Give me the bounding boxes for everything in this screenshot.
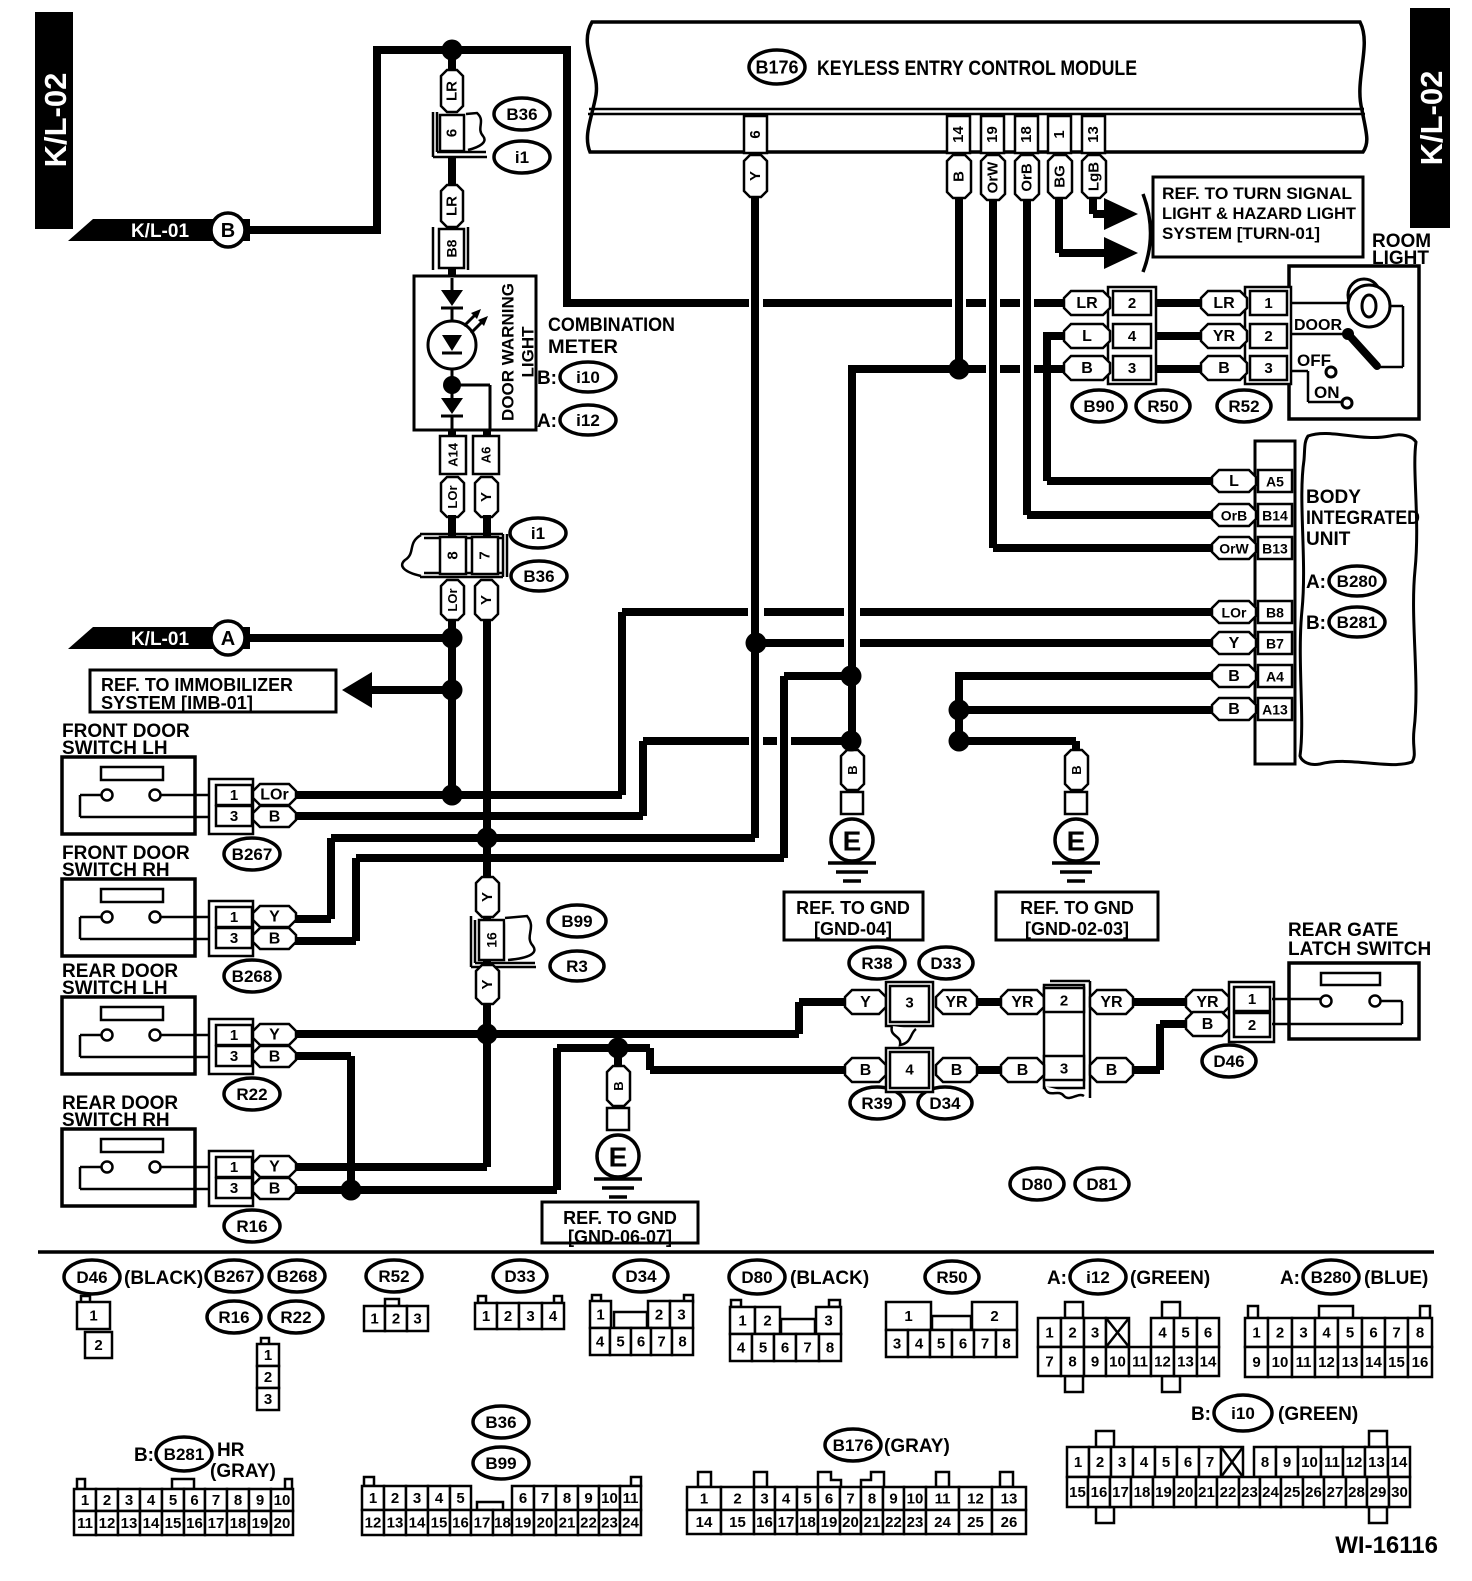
svg-text:8: 8 xyxy=(868,1491,876,1508)
svg-text:R50: R50 xyxy=(1147,397,1178,416)
svg-text:6: 6 xyxy=(637,1334,645,1351)
svg-text:3: 3 xyxy=(824,1313,832,1330)
svg-text:OFF: OFF xyxy=(1297,351,1331,370)
svg-text:21: 21 xyxy=(864,1514,881,1531)
svg-text:10: 10 xyxy=(907,1491,924,1508)
svg-text:B267: B267 xyxy=(232,845,273,864)
svg-text:DOOR WARNING: DOOR WARNING xyxy=(499,283,518,421)
svg-text:B90: B90 xyxy=(1083,397,1114,416)
svg-text:YR: YR xyxy=(1100,994,1123,1011)
svg-text:A14: A14 xyxy=(446,442,461,467)
svg-text:12: 12 xyxy=(365,1515,382,1532)
svg-text:LOr: LOr xyxy=(445,588,460,611)
svg-text:2: 2 xyxy=(763,1313,771,1330)
svg-text:3: 3 xyxy=(125,1492,133,1509)
svg-text:19: 19 xyxy=(515,1515,532,1532)
svg-text:REF. TO IMMOBILIZER: REF. TO IMMOBILIZER xyxy=(101,675,293,695)
svg-text:B36: B36 xyxy=(523,567,554,586)
svg-text:A:: A: xyxy=(1280,1268,1300,1289)
svg-text:17: 17 xyxy=(208,1515,225,1532)
svg-text:A4: A4 xyxy=(1266,669,1284,685)
svg-text:1: 1 xyxy=(230,787,238,804)
svg-text:i10: i10 xyxy=(1231,1404,1255,1423)
svg-text:2: 2 xyxy=(103,1492,111,1509)
svg-text:9: 9 xyxy=(889,1491,897,1508)
svg-text:1: 1 xyxy=(1051,130,1068,138)
svg-text:5: 5 xyxy=(616,1334,624,1351)
svg-text:5: 5 xyxy=(937,1336,945,1353)
svg-text:[GND-02-03]: [GND-02-03] xyxy=(1025,919,1129,939)
svg-text:KEYLESS ENTRY CONTROL MODULE: KEYLESS ENTRY CONTROL MODULE xyxy=(817,57,1137,80)
svg-text:1: 1 xyxy=(738,1313,746,1330)
svg-text:22: 22 xyxy=(885,1514,902,1531)
svg-text:29: 29 xyxy=(1370,1484,1387,1501)
svg-text:R52: R52 xyxy=(1228,397,1259,416)
svg-text:3: 3 xyxy=(893,1336,901,1353)
svg-text:OrW: OrW xyxy=(1219,541,1249,557)
svg-text:E: E xyxy=(1067,826,1086,857)
svg-text:2: 2 xyxy=(990,1308,998,1325)
svg-text:6: 6 xyxy=(959,1336,967,1353)
svg-text:24: 24 xyxy=(622,1515,639,1532)
svg-text:16: 16 xyxy=(452,1515,469,1532)
svg-text:19: 19 xyxy=(821,1514,838,1531)
svg-text:23: 23 xyxy=(907,1514,924,1531)
svg-text:6: 6 xyxy=(1204,1325,1212,1342)
svg-text:3: 3 xyxy=(1060,1061,1068,1078)
svg-text:YR: YR xyxy=(1196,994,1219,1011)
svg-text:INTEGRATED: INTEGRATED xyxy=(1306,508,1420,529)
svg-text:12: 12 xyxy=(99,1515,116,1532)
svg-text:17: 17 xyxy=(778,1514,795,1531)
svg-text:15: 15 xyxy=(1388,1354,1405,1371)
svg-text:19: 19 xyxy=(252,1515,269,1532)
svg-text:B: B xyxy=(860,1062,872,1079)
svg-text:R16: R16 xyxy=(236,1217,267,1236)
svg-text:14: 14 xyxy=(1365,1354,1382,1371)
svg-text:K/L-02: K/L-02 xyxy=(38,73,73,168)
svg-text:10: 10 xyxy=(1301,1454,1318,1471)
svg-text:27: 27 xyxy=(1327,1484,1344,1501)
svg-text:7: 7 xyxy=(981,1336,989,1353)
svg-text:LR: LR xyxy=(1076,295,1098,312)
svg-text:6: 6 xyxy=(747,130,764,138)
svg-text:2: 2 xyxy=(655,1307,663,1324)
svg-text:10: 10 xyxy=(1109,1354,1126,1371)
svg-text:5: 5 xyxy=(169,1492,177,1509)
svg-text:6: 6 xyxy=(519,1490,527,1507)
svg-text:3: 3 xyxy=(1118,1454,1126,1471)
svg-text:D80: D80 xyxy=(1021,1175,1052,1194)
svg-text:B: B xyxy=(1202,1016,1214,1033)
svg-text:B: B xyxy=(845,765,860,774)
svg-text:25: 25 xyxy=(967,1514,984,1531)
svg-text:REF. TO TURN SIGNAL: REF. TO TURN SIGNAL xyxy=(1162,184,1352,203)
svg-text:6: 6 xyxy=(781,1340,789,1357)
svg-text:3: 3 xyxy=(230,1048,238,1065)
svg-text:18: 18 xyxy=(1134,1484,1151,1501)
svg-text:Y: Y xyxy=(860,994,871,1011)
svg-text:14: 14 xyxy=(1200,1354,1217,1371)
svg-text:i12: i12 xyxy=(1086,1268,1110,1287)
svg-text:B:: B: xyxy=(1191,1404,1211,1425)
svg-text:A:: A: xyxy=(537,411,557,432)
svg-text:B14: B14 xyxy=(1262,508,1288,524)
svg-text:B: B xyxy=(951,1062,963,1079)
svg-text:13: 13 xyxy=(1342,1354,1359,1371)
svg-text:D81: D81 xyxy=(1086,1175,1117,1194)
svg-text:13: 13 xyxy=(1177,1354,1194,1371)
svg-text:7: 7 xyxy=(212,1492,220,1509)
svg-text:Y: Y xyxy=(478,595,495,605)
svg-text:B281: B281 xyxy=(164,1445,205,1464)
svg-text:A5: A5 xyxy=(1266,474,1284,490)
svg-text:LOr: LOr xyxy=(445,485,460,508)
svg-text:B: B xyxy=(1069,765,1084,774)
svg-text:K/L-01: K/L-01 xyxy=(131,629,190,650)
svg-text:9: 9 xyxy=(256,1492,264,1509)
svg-text:16: 16 xyxy=(756,1514,773,1531)
svg-text:B: B xyxy=(1218,360,1230,377)
svg-text:2: 2 xyxy=(1128,295,1136,312)
svg-text:7: 7 xyxy=(803,1340,811,1357)
svg-text:6: 6 xyxy=(825,1491,833,1508)
svg-text:A:: A: xyxy=(1306,572,1326,593)
svg-text:8: 8 xyxy=(234,1492,242,1509)
svg-text:A:: A: xyxy=(1047,1268,1067,1289)
svg-text:HR: HR xyxy=(217,1440,245,1461)
svg-text:REF. TO GND: REF. TO GND xyxy=(1020,898,1134,918)
svg-text:8: 8 xyxy=(678,1334,686,1351)
svg-text:3: 3 xyxy=(413,1490,421,1507)
svg-text:UNIT: UNIT xyxy=(1306,529,1351,550)
svg-text:13: 13 xyxy=(1001,1491,1018,1508)
svg-text:15: 15 xyxy=(431,1515,448,1532)
svg-text:2: 2 xyxy=(1068,1325,1076,1342)
svg-text:B: B xyxy=(1228,668,1240,685)
svg-text:LIGHT & HAZARD LIGHT: LIGHT & HAZARD LIGHT xyxy=(1162,204,1357,223)
svg-text:14: 14 xyxy=(1391,1454,1408,1471)
svg-text:7: 7 xyxy=(846,1491,854,1508)
svg-text:B36: B36 xyxy=(485,1413,516,1432)
svg-text:LATCH SWITCH: LATCH SWITCH xyxy=(1288,939,1431,960)
svg-text:1: 1 xyxy=(700,1491,708,1508)
svg-text:R3: R3 xyxy=(566,957,588,976)
svg-text:4: 4 xyxy=(782,1491,791,1508)
svg-text:B8: B8 xyxy=(1266,605,1284,621)
svg-text:B281: B281 xyxy=(1337,613,1378,632)
svg-text:2: 2 xyxy=(1264,328,1272,345)
svg-text:OrW: OrW xyxy=(985,161,1002,194)
svg-text:(GREEN): (GREEN) xyxy=(1278,1404,1358,1425)
svg-text:YR: YR xyxy=(945,994,968,1011)
svg-text:21: 21 xyxy=(559,1515,576,1532)
svg-text:A6: A6 xyxy=(479,447,494,464)
svg-text:R22: R22 xyxy=(280,1308,311,1327)
svg-text:13: 13 xyxy=(387,1515,404,1532)
svg-text:B: B xyxy=(269,809,281,826)
svg-text:B: B xyxy=(611,1081,626,1090)
svg-text:BODY: BODY xyxy=(1306,487,1361,508)
svg-text:10: 10 xyxy=(1272,1354,1289,1371)
svg-text:4: 4 xyxy=(147,1492,156,1509)
svg-text:1: 1 xyxy=(230,1027,238,1044)
svg-text:1: 1 xyxy=(1074,1454,1082,1471)
svg-text:METER: METER xyxy=(548,337,618,358)
svg-text:5: 5 xyxy=(1181,1325,1189,1342)
svg-text:19: 19 xyxy=(1155,1484,1172,1501)
svg-text:4: 4 xyxy=(1158,1325,1167,1342)
svg-text:30: 30 xyxy=(1391,1484,1408,1501)
svg-text:R22: R22 xyxy=(236,1085,267,1104)
svg-text:Y: Y xyxy=(479,892,496,902)
svg-text:2: 2 xyxy=(264,1369,272,1386)
svg-text:(GREEN): (GREEN) xyxy=(1130,1268,1210,1289)
svg-text:1: 1 xyxy=(370,1311,378,1328)
svg-text:B: B xyxy=(269,931,281,948)
svg-text:16: 16 xyxy=(484,932,500,948)
svg-text:13: 13 xyxy=(1085,126,1102,143)
svg-text:K/L-01: K/L-01 xyxy=(131,221,190,242)
svg-text:3: 3 xyxy=(1091,1325,1099,1342)
svg-text:LR: LR xyxy=(1213,295,1235,312)
svg-text:B: B xyxy=(1081,360,1093,377)
svg-text:B99: B99 xyxy=(485,1454,516,1473)
svg-text:LIGHT: LIGHT xyxy=(519,326,538,378)
svg-text:B176: B176 xyxy=(833,1436,874,1455)
svg-text:Y: Y xyxy=(479,979,496,989)
svg-text:LgB: LgB xyxy=(1086,162,1103,191)
svg-text:9: 9 xyxy=(1091,1354,1099,1371)
svg-text:(BLACK): (BLACK) xyxy=(124,1268,203,1289)
svg-text:LOr: LOr xyxy=(260,787,288,804)
svg-text:6: 6 xyxy=(190,1492,198,1509)
svg-text:1: 1 xyxy=(1248,991,1256,1008)
svg-text:[GND-04]: [GND-04] xyxy=(814,919,892,939)
svg-text:2: 2 xyxy=(392,1311,400,1328)
svg-text:B267: B267 xyxy=(214,1267,255,1286)
svg-text:[GND-06-07]: [GND-06-07] xyxy=(568,1227,672,1247)
svg-text:B36: B36 xyxy=(506,105,537,124)
svg-text:Y: Y xyxy=(269,1159,280,1176)
svg-text:Y: Y xyxy=(269,1027,280,1044)
svg-text:1: 1 xyxy=(89,1308,97,1325)
svg-text:YR: YR xyxy=(1011,994,1034,1011)
svg-text:K/L-02: K/L-02 xyxy=(1414,71,1449,166)
svg-text:R38: R38 xyxy=(861,954,892,973)
svg-text:14: 14 xyxy=(143,1515,160,1532)
svg-text:4: 4 xyxy=(905,1062,914,1079)
svg-text:20: 20 xyxy=(842,1514,859,1531)
svg-text:4: 4 xyxy=(1128,328,1137,345)
svg-text:7: 7 xyxy=(1206,1454,1214,1471)
svg-text:4: 4 xyxy=(1140,1454,1149,1471)
svg-text:10: 10 xyxy=(274,1492,291,1509)
svg-text:11: 11 xyxy=(623,1490,639,1507)
svg-text:4: 4 xyxy=(1322,1325,1331,1342)
svg-text:B: B xyxy=(1106,1062,1118,1079)
svg-text:1: 1 xyxy=(596,1307,604,1324)
svg-text:2: 2 xyxy=(1248,1017,1256,1034)
svg-text:20: 20 xyxy=(1177,1484,1194,1501)
svg-text:10: 10 xyxy=(601,1490,618,1507)
svg-text:B: B xyxy=(951,171,968,182)
svg-text:28: 28 xyxy=(1348,1484,1365,1501)
svg-text:2: 2 xyxy=(733,1491,741,1508)
svg-text:B: B xyxy=(221,220,235,242)
svg-text:L: L xyxy=(1082,328,1092,345)
svg-text:11: 11 xyxy=(1324,1454,1340,1471)
svg-text:Y: Y xyxy=(478,492,495,502)
svg-text:1: 1 xyxy=(904,1308,912,1325)
svg-text:Y: Y xyxy=(747,171,764,181)
svg-text:D80: D80 xyxy=(741,1268,772,1287)
svg-text:3: 3 xyxy=(526,1308,534,1325)
svg-text:i1: i1 xyxy=(515,148,529,167)
svg-text:B268: B268 xyxy=(232,967,273,986)
svg-text:D34: D34 xyxy=(929,1094,961,1113)
svg-text:WI-16116: WI-16116 xyxy=(1335,1532,1438,1559)
svg-text:3: 3 xyxy=(1264,360,1272,377)
svg-text:2: 2 xyxy=(94,1337,102,1354)
svg-text:8: 8 xyxy=(445,551,462,559)
svg-text:1: 1 xyxy=(482,1308,490,1325)
svg-text:REF. TO GND: REF. TO GND xyxy=(563,1208,677,1228)
svg-text:13: 13 xyxy=(1368,1454,1385,1471)
svg-text:YR: YR xyxy=(1213,328,1236,345)
svg-text:18: 18 xyxy=(799,1514,816,1531)
svg-text:12: 12 xyxy=(1318,1354,1335,1371)
svg-text:3: 3 xyxy=(264,1391,272,1408)
svg-text:20: 20 xyxy=(274,1515,291,1532)
svg-text:12: 12 xyxy=(1154,1354,1171,1371)
svg-text:3: 3 xyxy=(230,930,238,947)
svg-text:3: 3 xyxy=(230,808,238,825)
svg-text:8: 8 xyxy=(1416,1325,1424,1342)
svg-text:B: B xyxy=(269,1049,281,1066)
svg-text:B7: B7 xyxy=(1266,636,1284,652)
svg-text:14: 14 xyxy=(409,1515,426,1532)
svg-text:2: 2 xyxy=(391,1490,399,1507)
svg-text:5: 5 xyxy=(1162,1454,1170,1471)
svg-text:(GRAY): (GRAY) xyxy=(884,1436,950,1457)
svg-text:D33: D33 xyxy=(504,1267,535,1286)
svg-text:8: 8 xyxy=(1068,1354,1076,1371)
svg-text:7: 7 xyxy=(477,551,494,559)
svg-text:17: 17 xyxy=(1112,1484,1129,1501)
svg-text:3: 3 xyxy=(1299,1325,1307,1342)
svg-text:17: 17 xyxy=(474,1515,491,1532)
svg-text:12: 12 xyxy=(967,1491,984,1508)
svg-text:B176: B176 xyxy=(755,58,798,78)
svg-text:24: 24 xyxy=(934,1514,951,1531)
svg-text:2: 2 xyxy=(504,1308,512,1325)
svg-text:i10: i10 xyxy=(576,368,600,387)
svg-text:B:: B: xyxy=(134,1445,154,1466)
svg-text:8: 8 xyxy=(826,1340,834,1357)
svg-text:14: 14 xyxy=(950,126,967,143)
svg-text:5: 5 xyxy=(759,1340,767,1357)
svg-text:15: 15 xyxy=(729,1514,746,1531)
svg-text:4: 4 xyxy=(596,1334,605,1351)
svg-text:3: 3 xyxy=(1128,360,1136,377)
svg-text:22: 22 xyxy=(580,1515,597,1532)
svg-text:3: 3 xyxy=(230,1180,238,1197)
svg-text:B280: B280 xyxy=(1311,1268,1352,1287)
svg-text:2: 2 xyxy=(1276,1325,1284,1342)
svg-text:7: 7 xyxy=(1045,1354,1053,1371)
svg-text:L: L xyxy=(1229,473,1239,490)
svg-text:D33: D33 xyxy=(930,954,961,973)
svg-text:16: 16 xyxy=(1091,1484,1108,1501)
svg-text:8: 8 xyxy=(1261,1454,1269,1471)
svg-text:BG: BG xyxy=(1052,165,1069,188)
svg-text:B: B xyxy=(269,1181,281,1198)
svg-text:8: 8 xyxy=(1002,1336,1010,1353)
svg-text:8: 8 xyxy=(563,1490,571,1507)
svg-text:16: 16 xyxy=(186,1515,203,1532)
svg-text:B99: B99 xyxy=(561,912,592,931)
svg-text:B: B xyxy=(1228,701,1240,718)
svg-text:SYSTEM [IMB-01]: SYSTEM [IMB-01] xyxy=(101,693,253,713)
svg-text:OrB: OrB xyxy=(1019,163,1036,192)
svg-text:9: 9 xyxy=(1283,1454,1291,1471)
svg-text:11: 11 xyxy=(935,1491,951,1508)
svg-text:26: 26 xyxy=(1305,1484,1322,1501)
svg-text:B268: B268 xyxy=(277,1267,318,1286)
svg-text:R50: R50 xyxy=(936,1268,967,1287)
svg-text:7: 7 xyxy=(657,1334,665,1351)
svg-text:Y: Y xyxy=(1229,635,1240,652)
svg-text:OrB: OrB xyxy=(1221,508,1247,524)
svg-text:i12: i12 xyxy=(576,411,600,430)
svg-text:R16: R16 xyxy=(218,1308,249,1327)
svg-text:13: 13 xyxy=(121,1515,138,1532)
svg-text:12: 12 xyxy=(1346,1454,1363,1471)
svg-text:6: 6 xyxy=(1369,1325,1377,1342)
svg-text:18: 18 xyxy=(1018,126,1035,143)
svg-text:11: 11 xyxy=(77,1515,93,1532)
svg-text:21: 21 xyxy=(1198,1484,1215,1501)
svg-text:11: 11 xyxy=(1132,1354,1148,1371)
svg-text:E: E xyxy=(843,826,862,857)
svg-text:4: 4 xyxy=(915,1336,924,1353)
svg-text:5: 5 xyxy=(1346,1325,1354,1342)
svg-text:REF. TO GND: REF. TO GND xyxy=(796,898,910,918)
svg-text:5: 5 xyxy=(456,1490,464,1507)
svg-text:A13: A13 xyxy=(1262,702,1288,718)
svg-text:15: 15 xyxy=(165,1515,182,1532)
svg-text:DOOR: DOOR xyxy=(1294,317,1342,334)
svg-text:7: 7 xyxy=(1392,1325,1400,1342)
svg-text:REAR GATE: REAR GATE xyxy=(1288,920,1398,941)
svg-text:1: 1 xyxy=(230,909,238,926)
svg-text:2: 2 xyxy=(1060,993,1068,1010)
svg-text:14: 14 xyxy=(696,1514,713,1531)
svg-text:B:: B: xyxy=(537,368,557,389)
svg-text:16: 16 xyxy=(1412,1354,1429,1371)
svg-text:D34: D34 xyxy=(625,1267,657,1286)
svg-text:7: 7 xyxy=(541,1490,549,1507)
svg-text:E: E xyxy=(609,1142,628,1173)
svg-text:4: 4 xyxy=(549,1308,558,1325)
svg-text:B: B xyxy=(1017,1062,1029,1079)
svg-text:25: 25 xyxy=(1284,1484,1301,1501)
svg-text:B280: B280 xyxy=(1337,572,1378,591)
svg-text:B8: B8 xyxy=(444,239,460,257)
svg-text:19: 19 xyxy=(984,126,1001,143)
svg-text:3: 3 xyxy=(413,1311,421,1328)
